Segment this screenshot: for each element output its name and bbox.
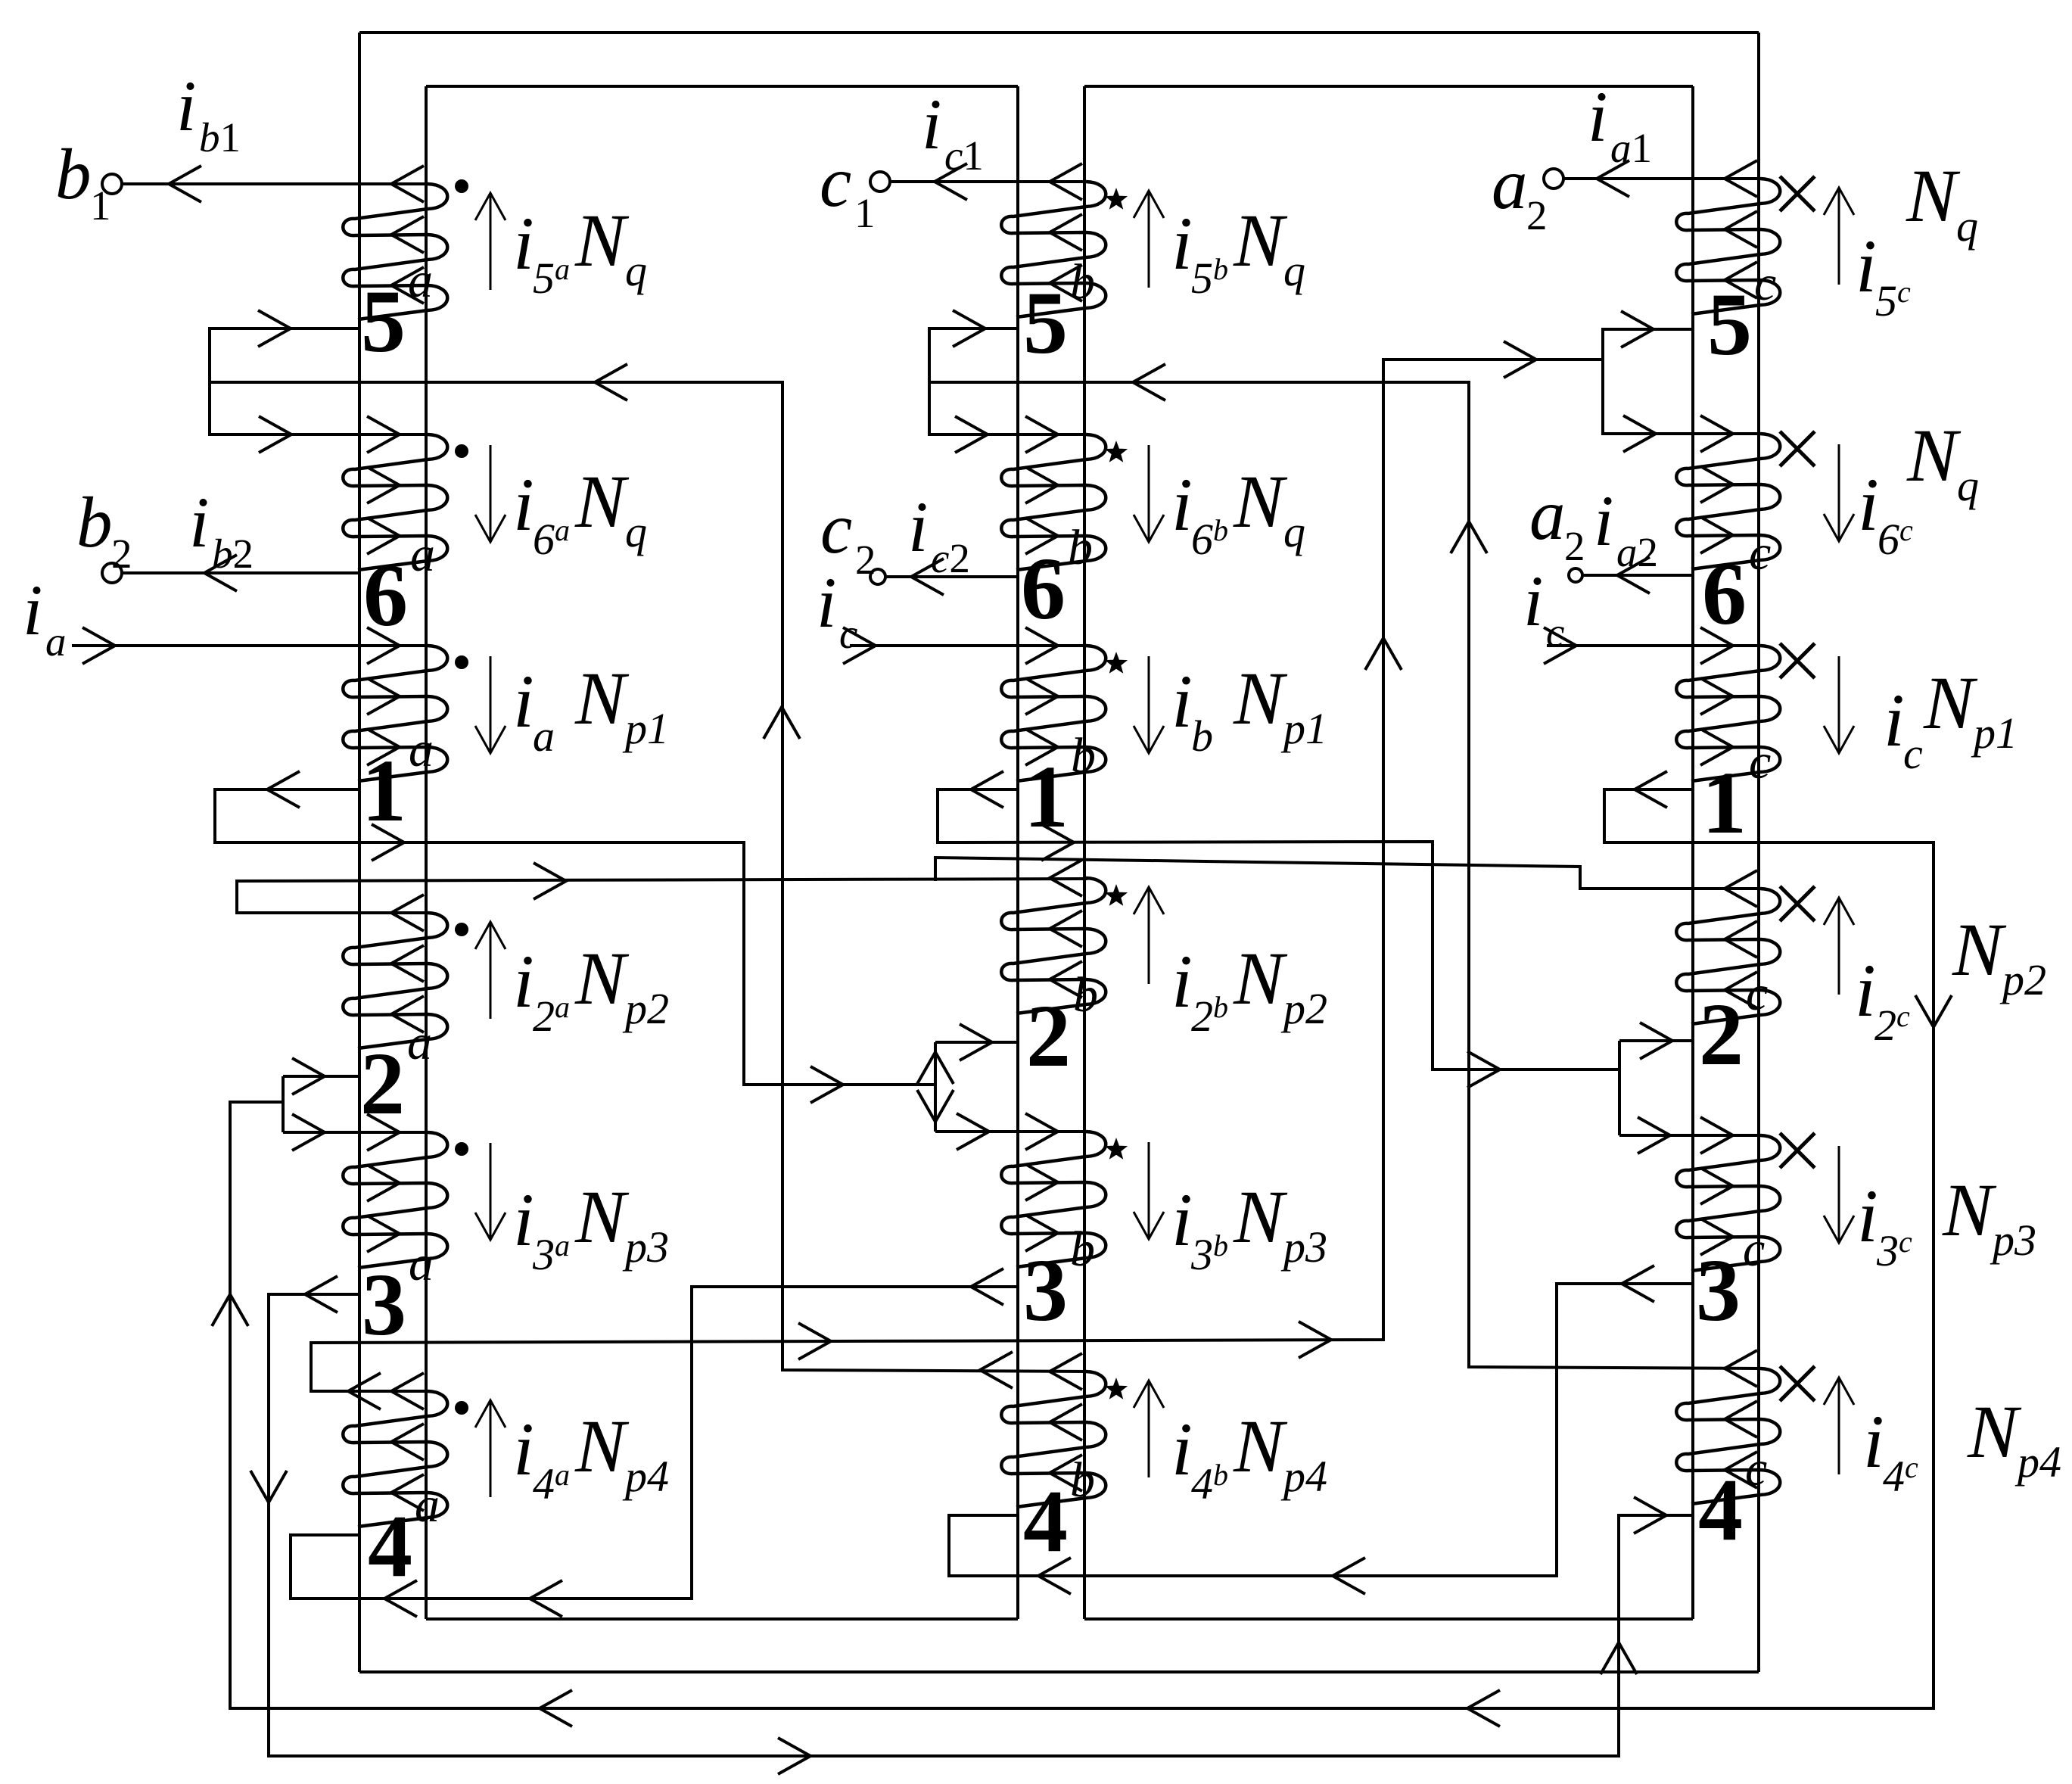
arrow i_3a xyxy=(490,1143,492,1240)
leg a right line / box A left xyxy=(425,86,428,1619)
branch to 2c xyxy=(935,858,1760,889)
wire 4a top to tap C xyxy=(311,360,1603,1391)
svg-text:i: i xyxy=(1171,462,1193,546)
arrow i_6c xyxy=(1838,444,1840,541)
svg-text:N: N xyxy=(1233,936,1288,1020)
svg-text:c: c xyxy=(820,488,852,568)
arrow i_1a xyxy=(490,656,492,753)
svg-text:i: i xyxy=(23,570,42,650)
svg-text:q: q xyxy=(1957,461,1979,510)
svg-text:c: c xyxy=(1749,734,1771,789)
wire c1 to coil 5b xyxy=(889,180,1086,183)
coil 1c xyxy=(1676,646,1780,781)
terminal a2 top xyxy=(1544,169,1563,188)
svg-text:1: 1 xyxy=(90,182,111,229)
arrow i_2b xyxy=(1148,887,1150,984)
wire 2b label xyxy=(935,1041,1018,1044)
leg b left line / box A right xyxy=(1016,86,1019,1619)
wire 3c entry xyxy=(1619,1134,1760,1137)
polarity dot winding 4a xyxy=(455,1401,468,1415)
arrow i_1b xyxy=(1148,656,1150,753)
svg-text:N: N xyxy=(1233,1175,1288,1259)
svg-text:p4: p4 xyxy=(1280,1452,1327,1501)
svg-text:c: c xyxy=(839,611,857,657)
wire 1a bottom chain to 2b/3b xyxy=(215,789,935,1085)
svg-text:3: 3 xyxy=(1023,1241,1068,1340)
polarity dot winding 5a xyxy=(455,179,468,193)
svg-text:p1: p1 xyxy=(1280,704,1327,753)
svg-text:c2: c2 xyxy=(931,535,970,581)
junction 2a label / 3a entry xyxy=(282,1076,285,1132)
svg-text:p3: p3 xyxy=(1280,1222,1327,1272)
svg-text:b: b xyxy=(1070,254,1095,310)
polarity cross winding 6c xyxy=(1780,431,1815,466)
coil 5b xyxy=(1001,182,1106,317)
coil 1b xyxy=(1001,646,1106,781)
svg-text:2: 2 xyxy=(1564,523,1585,569)
svg-text:6: 6 xyxy=(363,546,408,645)
arrow i_2c xyxy=(1838,898,1840,995)
svg-text:N: N xyxy=(1967,1390,2022,1474)
wire 1c bottom chain to 2a/3a xyxy=(230,789,1934,1708)
junction 2b label / 3b entry xyxy=(934,1042,937,1132)
svg-text:p2: p2 xyxy=(1280,984,1327,1033)
svg-text:b: b xyxy=(55,134,92,214)
svg-text:i: i xyxy=(817,562,836,643)
box A top xyxy=(426,85,1018,88)
svg-text:i: i xyxy=(1857,1174,1878,1258)
svg-text:c: c xyxy=(1749,525,1771,581)
terminal c1 xyxy=(870,172,890,191)
svg-text:i: i xyxy=(1523,561,1543,641)
wire 3a bottom to 4c label xyxy=(269,1294,1693,1756)
polarity star winding 1b xyxy=(1107,654,1126,672)
svg-text:p1: p1 xyxy=(622,704,669,753)
wire tap B to 4c top xyxy=(929,382,1760,1368)
svg-text:q: q xyxy=(625,246,647,295)
svg-text:i: i xyxy=(1858,462,1879,546)
svg-text:c: c xyxy=(1754,256,1776,311)
coil 1a xyxy=(343,646,447,781)
svg-text:a: a xyxy=(410,527,435,582)
leg c right line / outer box right xyxy=(1757,33,1760,1672)
svg-text:b: b xyxy=(1070,1452,1095,1508)
polarity star winding 6b xyxy=(1107,443,1126,461)
svg-text:i: i xyxy=(1594,481,1613,561)
wire 3c bottom to 4b label xyxy=(949,1284,1693,1576)
svg-text:c: c xyxy=(1743,1222,1765,1277)
svg-text:a: a xyxy=(415,1477,440,1533)
wire 3b entry xyxy=(935,1130,1086,1133)
svg-text:b: b xyxy=(1071,728,1096,783)
coil 4a xyxy=(343,1391,447,1527)
svg-text:2: 2 xyxy=(360,1034,405,1133)
wire i_c into 1c xyxy=(1547,644,1760,647)
terminal b1 xyxy=(102,174,122,194)
arrow i_5a xyxy=(490,193,492,290)
svg-text:N: N xyxy=(1942,1168,1997,1252)
wire 2c label xyxy=(1619,1039,1693,1042)
svg-text:c: c xyxy=(1546,609,1564,655)
svg-text:a2: a2 xyxy=(1616,529,1658,575)
arrow i_5c xyxy=(1838,188,1840,285)
arrow i_3c xyxy=(1838,1146,1840,1243)
leg b right line / box B left xyxy=(1083,86,1086,1619)
svg-text:a: a xyxy=(407,1015,432,1070)
svg-text:i: i xyxy=(1884,678,1905,762)
svg-text:a: a xyxy=(1529,475,1566,555)
svg-text:a: a xyxy=(45,618,67,665)
terminal c2 xyxy=(870,569,885,584)
svg-text:i: i xyxy=(1171,1178,1193,1262)
coil 5c xyxy=(1676,179,1780,314)
svg-text:2: 2 xyxy=(1699,985,1744,1084)
wire 1b bottom chain to 2c/3c xyxy=(938,789,1619,1069)
svg-text:i: i xyxy=(1855,948,1876,1032)
terminal a2 mid xyxy=(1569,568,1582,582)
coil 3a xyxy=(343,1132,447,1268)
svg-text:i: i xyxy=(513,462,534,546)
wire b1 to coil 5a xyxy=(121,182,428,185)
svg-text:1: 1 xyxy=(362,741,406,840)
svg-text:3: 3 xyxy=(362,1255,406,1354)
svg-text:6: 6 xyxy=(1021,539,1066,638)
coil 2a xyxy=(343,913,447,1048)
arrow i_6b xyxy=(1148,445,1150,542)
svg-text:i: i xyxy=(1171,659,1193,743)
svg-text:c: c xyxy=(1903,729,1923,778)
svg-text:b: b xyxy=(1068,520,1093,575)
svg-text:b: b xyxy=(1070,1222,1095,1277)
svg-text:4: 4 xyxy=(1698,1460,1743,1559)
svg-text:i: i xyxy=(1171,1407,1193,1491)
svg-text:6: 6 xyxy=(1702,544,1747,643)
arrow i_2a xyxy=(490,922,492,1019)
polarity dot winding 6a xyxy=(455,444,468,458)
svg-text:5: 5 xyxy=(1707,275,1752,374)
outer box bottom xyxy=(359,1670,1759,1673)
coil 6c xyxy=(1676,434,1780,569)
svg-text:p2: p2 xyxy=(622,984,669,1033)
wire 6a to b2 xyxy=(121,571,359,574)
arrow i_4a xyxy=(490,1400,492,1497)
wire a2 to coil 5c xyxy=(1563,177,1760,180)
svg-text:2: 2 xyxy=(1026,986,1071,1085)
svg-text:a: a xyxy=(409,1236,434,1291)
svg-text:q: q xyxy=(1956,201,1978,251)
svg-text:4: 4 xyxy=(368,1496,412,1596)
svg-text:p4: p4 xyxy=(622,1452,669,1501)
coil 4c xyxy=(1676,1368,1780,1504)
wire 5b-6b bracket xyxy=(929,328,1086,434)
svg-text:i: i xyxy=(1171,201,1193,285)
svg-text:N: N xyxy=(1906,413,1962,497)
arrow i_5b xyxy=(1148,191,1150,288)
svg-text:i: i xyxy=(1863,1399,1884,1484)
svg-text:N: N xyxy=(574,1175,630,1259)
box B bottom xyxy=(1084,1617,1693,1621)
wire 2a label xyxy=(283,1075,359,1078)
svg-text:c: c xyxy=(1746,966,1768,1021)
polarity star winding 4b xyxy=(1107,1380,1126,1398)
svg-text:c: c xyxy=(1745,1441,1767,1496)
junction 2c label / 3c entry xyxy=(1618,1041,1621,1135)
terminal b2 xyxy=(102,563,122,583)
svg-text:p2: p2 xyxy=(1999,955,2046,1004)
svg-text:5: 5 xyxy=(1023,273,1068,372)
coil 4b xyxy=(1001,1371,1106,1507)
arrow i_4b xyxy=(1148,1381,1150,1477)
coil 2c xyxy=(1676,889,1780,1024)
wire tap A to 4b top xyxy=(210,382,1087,1371)
coil 2b xyxy=(1001,878,1106,1013)
coil 5a xyxy=(343,184,447,319)
wire 5c-6c bracket xyxy=(1603,329,1760,434)
wire i_a into 1a xyxy=(72,644,428,647)
svg-text:N: N xyxy=(574,198,630,282)
wire 6c to a2 xyxy=(1582,574,1693,577)
svg-text:q: q xyxy=(1283,246,1305,295)
svg-text:i: i xyxy=(513,659,534,743)
arrow i_1c xyxy=(1838,656,1840,753)
svg-text:N: N xyxy=(1906,154,1961,238)
arrow i_4c xyxy=(1838,1378,1840,1474)
svg-text:a: a xyxy=(409,722,434,777)
svg-text:i: i xyxy=(513,1407,534,1491)
svg-text:a: a xyxy=(1492,144,1528,224)
leg c left line / box B right xyxy=(1691,86,1694,1619)
svg-text:i: i xyxy=(513,939,534,1023)
svg-text:q: q xyxy=(1283,507,1305,556)
coil 3b xyxy=(1001,1132,1106,1267)
svg-text:i: i xyxy=(922,84,941,164)
svg-text:N: N xyxy=(1233,1404,1288,1488)
polarity star winding 2b xyxy=(1107,886,1126,904)
polarity star winding 3b xyxy=(1107,1140,1126,1158)
svg-text:N: N xyxy=(574,1404,630,1488)
svg-text:N: N xyxy=(574,459,630,543)
svg-text:a: a xyxy=(408,253,433,308)
svg-text:5: 5 xyxy=(361,272,406,371)
svg-text:i: i xyxy=(908,487,928,567)
svg-text:4: 4 xyxy=(1023,1471,1068,1571)
wire 3b bottom to 4a label xyxy=(291,1287,1018,1599)
svg-text:N: N xyxy=(1233,656,1288,740)
svg-text:N: N xyxy=(1233,198,1288,282)
polarity cross winding 2c xyxy=(1780,886,1815,921)
svg-text:2: 2 xyxy=(1526,192,1548,238)
svg-text:1: 1 xyxy=(854,190,876,236)
coil 3c xyxy=(1676,1135,1780,1271)
svg-text:b: b xyxy=(1191,711,1213,761)
polarity cross winding 5c xyxy=(1780,176,1815,211)
svg-text:p3: p3 xyxy=(622,1222,669,1272)
svg-text:2: 2 xyxy=(111,531,132,577)
wire 5a-6a bracket xyxy=(210,328,428,434)
leg a left line / outer box left xyxy=(358,33,361,1672)
polarity cross winding 3c xyxy=(1780,1133,1815,1168)
outer box top xyxy=(359,31,1759,34)
box A bottom xyxy=(426,1617,1018,1621)
svg-text:1: 1 xyxy=(1702,753,1747,852)
svg-text:N: N xyxy=(1952,908,2007,992)
arrow i_3b xyxy=(1148,1142,1150,1239)
polarity star winding 5b xyxy=(1107,190,1126,208)
svg-text:N: N xyxy=(1233,459,1288,543)
svg-text:i: i xyxy=(1588,76,1607,157)
polarity cross winding 4c xyxy=(1780,1366,1815,1401)
coil 6a xyxy=(343,434,447,570)
wire 2a top to 2b/2c xyxy=(237,879,1087,913)
svg-text:p3: p3 xyxy=(1990,1216,2036,1265)
svg-text:2: 2 xyxy=(855,537,876,583)
svg-text:i: i xyxy=(1171,939,1193,1023)
wire 3a entry xyxy=(283,1131,428,1134)
svg-text:p1: p1 xyxy=(1971,708,2018,758)
svg-text:q: q xyxy=(625,507,647,556)
svg-text:1: 1 xyxy=(1024,747,1069,846)
svg-text:N: N xyxy=(574,936,630,1020)
svg-text:b2: b2 xyxy=(212,531,254,577)
svg-text:p4: p4 xyxy=(2014,1437,2061,1487)
svg-text:N: N xyxy=(574,656,630,740)
box B top xyxy=(1084,85,1693,88)
svg-text:3: 3 xyxy=(1696,1241,1741,1340)
svg-text:i: i xyxy=(1856,224,1877,308)
svg-text:N: N xyxy=(1923,661,1978,745)
svg-text:i: i xyxy=(513,1178,534,1262)
svg-text:c: c xyxy=(820,142,851,222)
wire i_c into 1b xyxy=(850,644,1086,647)
svg-text:i: i xyxy=(189,482,209,562)
svg-text:c1: c1 xyxy=(944,132,984,179)
svg-text:a1: a1 xyxy=(1610,125,1652,171)
polarity dot winding 2a xyxy=(455,923,468,936)
polarity cross winding 1c xyxy=(1780,643,1815,678)
svg-text:i: i xyxy=(513,201,534,285)
svg-text:b: b xyxy=(1073,967,1098,1023)
arrow i_6a xyxy=(490,445,492,542)
polarity dot winding 1a xyxy=(455,655,468,669)
wire 6b to c2 xyxy=(885,575,1018,578)
coil 6b xyxy=(1001,434,1106,570)
svg-text:a: a xyxy=(533,711,555,761)
polarity dot winding 3a xyxy=(455,1142,468,1156)
svg-text:b1: b1 xyxy=(199,114,241,160)
svg-text:b: b xyxy=(76,482,113,562)
svg-text:i: i xyxy=(176,66,196,146)
